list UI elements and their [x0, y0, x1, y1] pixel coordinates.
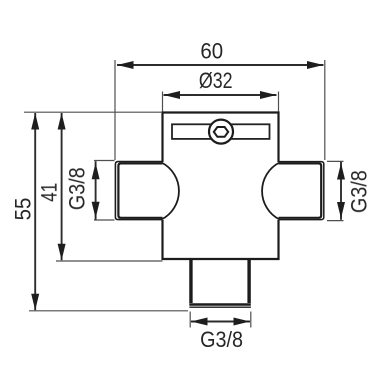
arrow bottom G38 left: [191, 318, 208, 326]
bottom port right wall: [247, 259, 250, 303]
ext line left G38 bottom: [94, 219, 115, 221]
dim line diam32: [164, 94, 277, 96]
arrow 55 bottom: [31, 294, 39, 311]
arrow left G38 bottom: [92, 202, 100, 219]
svg-text:G3/8: G3/8: [66, 167, 90, 210]
ext line left G38 top: [94, 160, 115, 162]
ext line top left shared 55 41: [24, 111, 162, 113]
dim line 41: [61, 113, 63, 260]
arrow 41 top: [58, 113, 66, 130]
valve slot (top groove): [172, 124, 270, 139]
dim line left G38: [95, 161, 97, 220]
bottom port left wall: [189, 259, 192, 303]
ext line bottom G38 right: [250, 312, 252, 328]
right port inner line: [279, 163, 322, 217]
arrow 55 top: [31, 113, 39, 130]
right port outer contour: [279, 162, 324, 220]
valve body outline: [163, 113, 279, 260]
extension lines (thin gray): [24, 60, 344, 328]
bottom port end main line: [189, 303, 251, 305]
dim line bottom G38: [191, 321, 250, 323]
ext line 60 left: [114, 60, 116, 160]
screw circle: [209, 120, 233, 144]
svg-text:G3/8: G3/8: [200, 328, 243, 352]
left port outer contour: [115, 162, 162, 220]
arrow right G38 bottom: [337, 202, 345, 219]
dimension lines (dark): [35, 65, 341, 322]
dim line 60: [117, 64, 324, 66]
svg-text:60: 60: [200, 39, 223, 64]
svg-text:41: 41: [38, 183, 63, 202]
ext line diam32 right: [278, 92, 280, 112]
dim line 55: [34, 113, 36, 310]
arrow 60 right: [307, 61, 324, 69]
dimension arrowheads: [31, 61, 345, 326]
ext line 41 bottom: [56, 260, 163, 262]
ext line right G38 top: [327, 160, 344, 162]
ext line bottom G38 left: [189, 312, 191, 328]
arrow diam32 right: [260, 91, 277, 99]
arrow left G38 top: [92, 163, 100, 180]
arrow diam32 left: [164, 91, 181, 99]
left port inner line: [118, 163, 162, 217]
left port dome arc: [162, 163, 179, 220]
arrow bottom G38 right: [234, 318, 251, 326]
ext line diam32 left: [162, 92, 164, 112]
bottom port thread end line: [189, 306, 251, 308]
right port dome arc: [262, 163, 279, 220]
hex socket: [214, 127, 228, 137]
ext line 55 bottom: [29, 310, 188, 312]
arrow right G38 top: [337, 163, 345, 180]
svg-text:G3/8: G3/8: [348, 170, 372, 213]
svg-text:55: 55: [11, 198, 36, 221]
svg-text:Ø32: Ø32: [199, 70, 233, 94]
dim line right G38: [340, 162, 342, 220]
arrow 41 bottom: [58, 244, 66, 260]
ext line right G38 bottom: [327, 220, 344, 222]
ext line 60 right: [324, 60, 326, 160]
arrow 60 left: [117, 61, 134, 69]
